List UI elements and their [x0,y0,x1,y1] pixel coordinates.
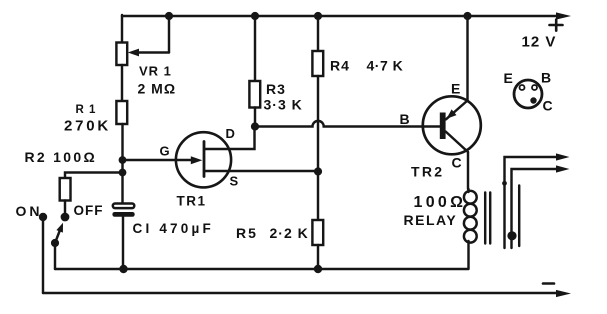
wire R3 top lead [254,16,256,81]
svg-text:270K: 270K [64,118,111,135]
wire VR1 wiper [128,16,169,56]
wire ON to outer rail [42,217,44,293]
capacitor C1 [112,204,134,217]
wire bottom outer negative rail [43,292,559,294]
node OFF contact [61,213,70,222]
resistor R3 [249,81,260,108]
svg-text:B: B [541,70,552,86]
svg-text:G: G [160,144,171,159]
node switch pivot [51,239,59,247]
wire collector lead [446,132,468,190]
transistor TR1 (FET) [176,132,231,187]
node emitter top rail dot [463,12,471,20]
power - symbol [543,282,554,285]
potentiometer VR1 [116,43,127,66]
node + terminal arrow [556,12,571,19]
svg-text:C: C [452,155,463,171]
svg-text:RELAY: RELAY [404,212,458,228]
wire left branch from rail to VR1 [121,15,123,43]
node R5 junction dot [314,265,322,273]
power + symbol [550,20,563,31]
resistor R1 [116,101,127,124]
svg-text:R4: R4 [330,58,350,74]
svg-text:100Ω: 100Ω [414,194,467,211]
svg-text:ON: ON [16,203,43,219]
svg-text:B: B [400,111,411,127]
transistor pinout view [514,80,542,108]
svg-text:R 1: R 1 [76,104,97,116]
wire VR1 to R1 [121,65,123,101]
wire R3 bottom lead [254,108,256,127]
wire emitter lead with arrow [446,16,468,119]
node relay contact dot [507,231,516,240]
relay contact armature 2 [512,165,570,248]
resistor R4 [312,51,323,76]
svg-text:12 V: 12 V [522,33,557,50]
node R2 junction dot [119,169,127,177]
svg-text:D: D [226,126,236,141]
node - terminal arrow [556,290,571,297]
wire R4 bottom lead [317,76,319,172]
node armature pivot dot [502,181,507,186]
svg-text:CI 470µF: CI 470µF [133,221,214,236]
node gate junction dot [119,156,127,164]
svg-text:2 MΩ: 2 MΩ [138,81,177,97]
wire R5 top lead [317,172,319,221]
wire R1 down to capacitor C1 [121,124,123,204]
relay RLA coil [464,189,477,269]
node junction dot wiper/top rail [165,12,173,20]
svg-text:S: S [230,174,240,189]
svg-text:E: E [504,70,514,86]
node ON contact [39,213,47,221]
svg-text:R3: R3 [266,81,286,97]
wire pivot to inner rail [54,243,56,269]
node source junction dot [314,167,322,175]
svg-text:R5: R5 [236,225,258,241]
svg-text:4·7 K: 4·7 K [367,58,404,74]
wire drain lead [204,127,255,150]
wire top positive rail [122,15,559,17]
node R3 top rail dot [251,12,259,20]
relay contact armature 1 [505,153,570,248]
wire R4 top lead [317,16,319,51]
svg-text:VR 1: VR 1 [139,64,172,79]
svg-text:2·2 K: 2·2 K [270,225,309,241]
wire gate lead with arrow [123,156,203,164]
resistor R2 [60,178,71,201]
wire R2 horizontal [65,173,123,179]
node R4 top rail dot [314,12,322,20]
wire bottom inner rail [55,268,468,270]
wire R2 to OFF contact [64,201,66,214]
svg-text:OFF: OFF [74,203,104,218]
transistor TR2 [423,96,481,154]
wire C1 to inner rail [122,217,124,270]
resistor R5 [312,220,323,245]
svg-text:C: C [543,98,554,114]
relay contact pole [518,186,520,247]
svg-text:3·3 K: 3·3 K [264,97,303,113]
svg-text:TR2: TR2 [411,164,444,180]
switch S1 arm [55,223,63,243]
svg-text:TR1: TR1 [177,194,207,209]
relay core bars [485,193,490,244]
node C1 junction dot [119,265,127,273]
wire source lead [204,170,318,172]
wire base line with hop over R4 [255,121,440,127]
svg-text:R2 100Ω: R2 100Ω [25,149,97,165]
node drain junction dot [251,122,259,130]
svg-text:E: E [451,81,461,97]
wire R5 bottom lead [317,245,319,269]
